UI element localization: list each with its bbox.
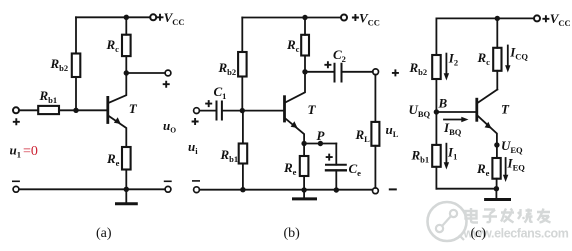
svg-text:(b): (b) bbox=[284, 226, 301, 241]
svg-text:P: P bbox=[317, 128, 326, 143]
svg-text:(c): (c) bbox=[471, 226, 487, 241]
svg-text:T: T bbox=[129, 101, 138, 116]
svg-text:B: B bbox=[438, 96, 448, 111]
svg-text:T: T bbox=[308, 102, 317, 117]
svg-text:=0: =0 bbox=[23, 144, 38, 159]
svg-text:(a): (a) bbox=[96, 226, 112, 241]
svg-text:T: T bbox=[501, 102, 510, 117]
